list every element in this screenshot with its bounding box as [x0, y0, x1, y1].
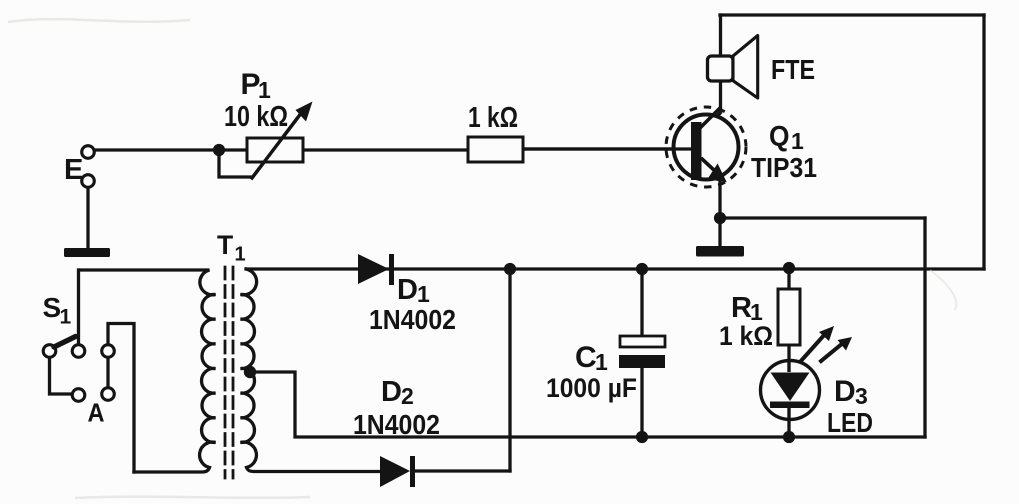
svg-text:1N4002: 1N4002 — [353, 409, 440, 440]
svg-text:1: 1 — [60, 306, 72, 329]
svg-text:1 kΩ: 1 kΩ — [719, 321, 773, 351]
svg-text:2: 2 — [401, 383, 414, 409]
svg-text:Q: Q — [769, 121, 790, 153]
svg-text:A: A — [88, 398, 105, 428]
svg-text:D: D — [397, 274, 418, 306]
svg-text:C: C — [575, 341, 597, 374]
svg-text:T: T — [217, 230, 233, 260]
svg-text:10 kΩ: 10 kΩ — [224, 101, 288, 133]
svg-text:1: 1 — [235, 244, 246, 266]
svg-text:3: 3 — [855, 383, 868, 409]
svg-text:D: D — [834, 375, 856, 408]
svg-text:E: E — [64, 154, 83, 186]
svg-text:R: R — [731, 292, 752, 324]
svg-text:1000 µF: 1000 µF — [546, 373, 637, 403]
svg-text:1N4002: 1N4002 — [369, 304, 456, 335]
svg-text:1: 1 — [258, 77, 271, 103]
svg-text:1: 1 — [791, 128, 804, 154]
svg-text:TIP31: TIP31 — [751, 152, 817, 183]
svg-text:D: D — [381, 376, 402, 408]
svg-text:LED: LED — [827, 407, 873, 438]
svg-text:FTE: FTE — [771, 54, 815, 85]
svg-text:1: 1 — [595, 349, 608, 375]
svg-text:S: S — [43, 292, 62, 323]
svg-text:1 kΩ: 1 kΩ — [468, 102, 518, 134]
